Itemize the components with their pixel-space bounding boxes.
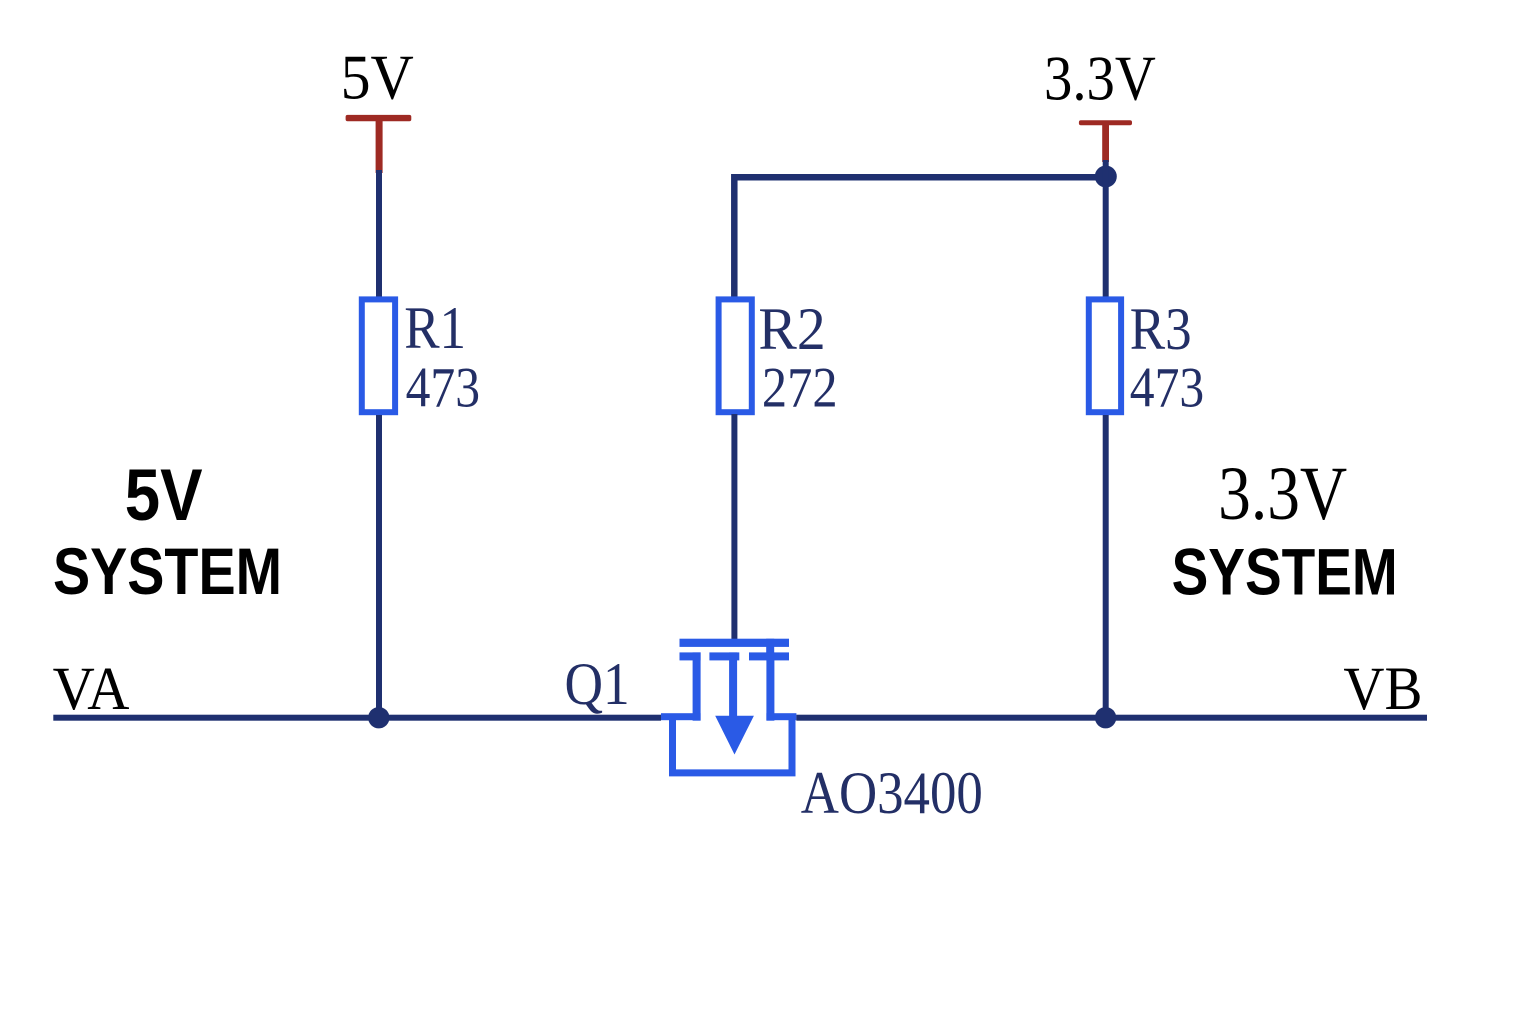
body lead vertical xyxy=(729,652,737,724)
svg-text:R1: R1 xyxy=(404,295,466,361)
svg-text:473: 473 xyxy=(406,357,480,420)
junction node 3.3V xyxy=(1095,166,1117,188)
svg-text:SYSTEM: SYSTEM xyxy=(1172,535,1398,609)
power flag 5V xyxy=(346,115,412,173)
svg-text:AO3400: AO3400 xyxy=(801,760,983,826)
junction node VB xyxy=(1095,707,1116,728)
wire 5V to R1 xyxy=(376,170,382,300)
wire gate (R2 bottom to Q1 gate) xyxy=(731,414,737,642)
svg-text:R3: R3 xyxy=(1130,296,1192,362)
svg-text:SYSTEM: SYSTEM xyxy=(53,534,282,608)
junction node VA xyxy=(368,707,389,728)
svg-text:3.3V: 3.3V xyxy=(1044,42,1156,113)
svg-text:R2: R2 xyxy=(758,296,825,362)
transistor Q1 (AO3400 N-MOSFET) xyxy=(661,639,796,773)
drain lead vertical xyxy=(766,652,774,720)
annotation 3.3V SYSTEM xyxy=(1172,452,1398,609)
svg-text:VB: VB xyxy=(1343,656,1422,723)
channel segment left xyxy=(680,652,701,660)
svg-text:473: 473 xyxy=(1130,357,1204,420)
svg-text:272: 272 xyxy=(762,357,838,420)
bulk U bracket xyxy=(673,714,793,773)
wire VA xyxy=(53,715,661,721)
gate tick xyxy=(766,639,774,661)
wire R3 to VB xyxy=(1103,415,1109,718)
svg-text:5V: 5V xyxy=(341,42,414,113)
resistor R2 xyxy=(719,299,752,412)
wire VB xyxy=(796,715,1427,721)
svg-text:3.3V: 3.3V xyxy=(1218,452,1347,536)
resistor R1 xyxy=(362,299,395,412)
wire R1 to VA xyxy=(376,415,382,718)
svg-text:VA: VA xyxy=(53,656,130,723)
svg-text:Q1: Q1 xyxy=(565,651,630,717)
gate bar xyxy=(680,639,790,647)
svg-text:5V: 5V xyxy=(125,455,203,536)
annotation 5V SYSTEM xyxy=(53,455,282,608)
power flag 3.3V xyxy=(1079,120,1132,162)
resistor R3 xyxy=(1089,299,1121,412)
wire R2 to 3.3V node xyxy=(734,177,1105,299)
wire 3.3V node to R3 xyxy=(1103,160,1109,299)
channel segment right xyxy=(749,652,789,660)
source stub xyxy=(661,713,701,720)
drain stub xyxy=(766,713,796,720)
source lead vertical xyxy=(693,652,701,720)
channel segment middle xyxy=(709,652,739,660)
body arrow xyxy=(715,716,754,755)
